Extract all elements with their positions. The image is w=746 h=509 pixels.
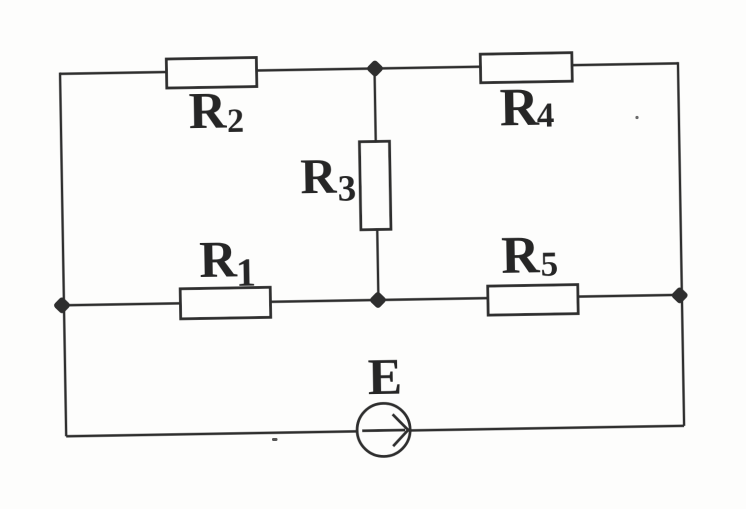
svg-text:E: E xyxy=(367,349,402,407)
